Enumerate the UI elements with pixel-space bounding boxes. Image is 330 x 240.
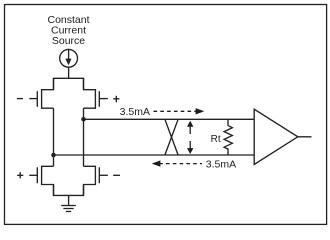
wire tail to ground (68, 195, 70, 205)
ground (61, 206, 76, 212)
transistor upper-left (29, 78, 53, 108)
label Constant Current Source (47, 14, 89, 47)
transistor upper-right (84, 78, 108, 108)
twisted pair crossover (165, 119, 178, 155)
differential voltage arrow down (187, 141, 193, 154)
minus label lower-right (113, 174, 120, 176)
svg-text:3.5mA: 3.5mA (206, 158, 236, 170)
current flow arrow top (dashed, right) (154, 108, 205, 114)
transistor lower-right (84, 166, 108, 195)
plus label upper-right (113, 96, 119, 103)
op-amp comparator (254, 109, 298, 164)
wire top (positive) to comparator (84, 118, 255, 120)
node junction dot top wire (81, 117, 86, 122)
node junction dot bottom wire (51, 153, 56, 158)
wire upper-right source to lower-right drain (83, 108, 85, 166)
current flow arrow bottom (dashed, left) (152, 160, 202, 166)
plus label lower-left (17, 172, 23, 178)
wire comparator output (298, 136, 312, 138)
wire upper-left source to lower-left drain (53, 108, 55, 166)
minus label upper-left (17, 98, 23, 100)
transistor lower-left (29, 166, 53, 195)
wire current source to tail bar (68, 67, 70, 78)
wire lower pair tail bar (54, 185, 84, 196)
svg-text:Source: Source (52, 35, 85, 47)
wire tail bar upper pair (54, 78, 84, 89)
current source (60, 49, 78, 67)
svg-text:3.5mA: 3.5mA (120, 106, 150, 118)
svg-text:Rt: Rt (211, 134, 221, 145)
wire bottom (negative) to comparator (54, 154, 255, 156)
differential voltage arrow up (187, 121, 193, 134)
resistor Rt (224, 119, 232, 155)
